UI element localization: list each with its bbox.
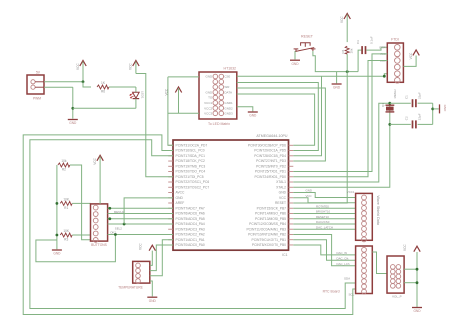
svg-text:OK2: OK2	[110, 230, 116, 234]
svg-text:PCINT30/OC2B/ICP_PD6: PCINT30/OC2B/ICP_PD6	[248, 144, 286, 148]
svg-text:PCINT1/ADC1_PA1: PCINT1/ADC1_PA1	[176, 238, 205, 242]
svg-text:VCC: VCC	[129, 63, 133, 70]
svg-text:PWM: PWM	[33, 96, 41, 100]
svg-text:PCINT29/OC1A_PD5: PCINT29/OC1A_PD5	[254, 149, 286, 153]
svg-text:SCL: SCL	[349, 293, 355, 297]
svg-text:WR: WR	[224, 85, 230, 89]
svg-text:PCINT11/OC0A/AIN1_PB3: PCINT11/OC0A/AIN1_PB3	[246, 227, 286, 231]
svg-text:DAC_LATCH: DAC_LATCH	[316, 225, 333, 229]
svg-text:RESET: RESET	[275, 201, 286, 205]
svg-text:10K: 10K	[63, 229, 70, 233]
svg-text:Wave Shield Data: Wave Shield Data	[376, 196, 380, 226]
svg-text:IC1: IC1	[282, 253, 287, 257]
svg-text:DTR: DTR	[379, 46, 386, 50]
svg-text:SDA: SDA	[344, 277, 350, 281]
svg-text:16MHz: 16MHz	[393, 89, 397, 99]
svg-text:R6: R6	[101, 90, 105, 94]
svg-text:AVCC: AVCC	[176, 191, 186, 195]
svg-text:R4: R4	[341, 49, 345, 53]
svg-text:GND: GND	[279, 191, 287, 195]
svg-text:PCINT5/ADC5_PA5: PCINT5/ADC5_PA5	[176, 217, 205, 221]
svg-text:PCINT7/ADC7_PA7: PCINT7/ADC7_PA7	[176, 206, 205, 210]
svg-text:MENU2: MENU2	[114, 210, 125, 214]
svg-text:XTAL2: XTAL2	[276, 185, 286, 189]
svg-text:PCINT2/ADC2_PA2: PCINT2/ADC2_PA2	[176, 233, 205, 237]
svg-text:VCC: VCC	[279, 196, 287, 200]
svg-text:PCINT22/TOSC1_PC6: PCINT22/TOSC1_PC6	[176, 180, 210, 184]
svg-text:VCC1: VCC1	[204, 101, 212, 105]
svg-text:PCINT31/OC2A_PD7: PCINT31/OC2A_PD7	[176, 144, 208, 148]
svg-text:VCC: VCC	[93, 157, 97, 164]
svg-text:GND2: GND2	[224, 106, 233, 110]
svg-text:GND: GND	[53, 252, 61, 256]
svg-text:VCC: VCC	[403, 244, 407, 251]
svg-text:RTC Board: RTC Board	[323, 290, 340, 294]
svg-text:VCC1: VCC1	[347, 190, 355, 194]
svg-text:GND: GND	[149, 299, 157, 303]
svg-text:AREF: AREF	[176, 201, 185, 205]
svg-text:GND1: GND1	[224, 101, 233, 105]
svg-text:DAC_W: DAC_W	[337, 251, 348, 255]
svg-text:PCINT25/TXD1_PD1: PCINT25/TXD1_PD1	[255, 170, 286, 174]
svg-text:BRIGHT10: BRIGHT10	[316, 210, 331, 214]
svg-text:C2: C2	[405, 116, 409, 120]
svg-text:10k: 10k	[350, 48, 354, 53]
svg-text:RESET: RESET	[301, 34, 314, 38]
svg-text:10K: 10K	[63, 197, 70, 201]
svg-text:TO: TO	[208, 96, 213, 100]
svg-text:PCINT27/INT1_PD3: PCINT27/INT1_PD3	[256, 159, 286, 163]
svg-text:PCINT24/RXD1_PD0: PCINT24/RXD1_PD0	[254, 175, 286, 179]
svg-text:ATMEGA644-10PU: ATMEGA644-10PU	[256, 134, 287, 138]
svg-text:HT1632: HT1632	[224, 67, 237, 71]
svg-text:PCINT0/ADC0_PA0: PCINT0/ADC0_PA0	[176, 243, 205, 247]
svg-text:VCC: VCC	[306, 194, 312, 198]
svg-text:R2: R2	[62, 168, 66, 172]
svg-text:GND: GND	[333, 86, 341, 90]
svg-text:22pF: 22pF	[418, 92, 422, 99]
svg-text:To LED Matrix: To LED Matrix	[208, 122, 230, 126]
svg-text:PCINT12/OC0B/SS_PB4: PCINT12/OC0B/SS_PB4	[249, 222, 286, 226]
svg-text:VCC: VCC	[139, 243, 143, 250]
svg-text:RESET10: RESET10	[316, 215, 329, 219]
svg-text:PCINT10/INT2/AIN0_PB2: PCINT10/INT2/AIN0_PB2	[248, 233, 286, 237]
svg-text:VCC: VCC	[76, 63, 80, 70]
svg-text:GND: GND	[206, 75, 214, 79]
svg-text:PCINT16/SCL_PC0: PCINT16/SCL_PC0	[176, 149, 205, 153]
svg-text:GND3: GND3	[224, 112, 233, 116]
svg-text:GND: GND	[291, 62, 299, 66]
svg-text:XTAL1: XTAL1	[276, 180, 286, 184]
svg-text:VCC: VCC	[165, 88, 169, 95]
svg-text:0.1uF: 0.1uF	[370, 36, 374, 44]
svg-text:C1: C1	[405, 95, 409, 99]
svg-text:VCC3: VCC3	[204, 112, 212, 116]
svg-text:VCC: VCC	[340, 16, 344, 23]
svg-text:PCINT14/MISO_PB6: PCINT14/MISO_PB6	[255, 212, 286, 216]
svg-text:FTDI: FTDI	[391, 38, 399, 42]
svg-text:PCINT4/ADC4_PA4: PCINT4/ADC4_PA4	[176, 222, 205, 226]
svg-text:PCINT17/SDA_PC1: PCINT17/SDA_PC1	[176, 154, 206, 158]
svg-text:VCC2: VCC2	[204, 106, 212, 110]
svg-text:GND: GND	[249, 114, 257, 118]
svg-text:DAC_Clk: DAC_Clk	[337, 256, 349, 260]
svg-text:PCINT23/TOSC2_PC7: PCINT23/TOSC2_PC7	[176, 185, 210, 189]
svg-text:DAC_LCh: DAC_LCh	[337, 262, 350, 266]
svg-text:GND: GND	[413, 309, 421, 313]
svg-text:VOL_P: VOL_P	[392, 295, 402, 299]
svg-text:ROTATE0: ROTATE0	[316, 204, 329, 208]
svg-text:PCINT13/MOSI_PB5: PCINT13/MOSI_PB5	[255, 217, 286, 221]
svg-text:PCINT19/TMS_PC3: PCINT19/TMS_PC3	[176, 164, 206, 168]
svg-text:GND: GND	[306, 189, 312, 193]
svg-text:10k: 10k	[61, 159, 67, 163]
svg-text:PCINT15/SCK_PB7: PCINT15/SCK_PB7	[257, 206, 286, 210]
svg-text:PCINT18/TCK_PC2: PCINT18/TCK_PC2	[176, 159, 205, 163]
svg-text:GND: GND	[206, 90, 214, 94]
svg-text:Q1: Q1	[381, 103, 385, 107]
svg-text:PCINT26/INT0_PD2: PCINT26/INT0_PD2	[256, 164, 286, 168]
svg-text:GND: GND	[69, 121, 77, 125]
svg-text:PCINT20/TDO_PC4: PCINT20/TDO_PC4	[176, 170, 206, 174]
svg-text:DATA: DATA	[224, 90, 232, 94]
svg-text:GND: GND	[176, 196, 184, 200]
svg-text:PCINT3/ADC3_PA3: PCINT3/ADC3_PA3	[176, 227, 205, 231]
svg-text:R3: R3	[64, 238, 68, 242]
svg-text:22pF: 22pF	[418, 113, 422, 120]
svg-text:PCINT9/CLKO/T1_PB1: PCINT9/CLKO/T1_PB1	[252, 238, 287, 242]
svg-text:GND: GND	[443, 105, 447, 113]
svg-text:R1: R1	[64, 206, 68, 210]
svg-text:LED1: LED1	[141, 91, 145, 99]
svg-text:PCINT28/OC1B_PD4: PCINT28/OC1B_PD4	[254, 154, 286, 158]
svg-text:PCINT6/ADC6_PA6: PCINT6/ADC6_PA6	[176, 212, 205, 216]
svg-text:PCINT21/TDI_PC5: PCINT21/TDI_PC5	[176, 175, 204, 179]
svg-text:DAC2CS0: DAC2CS0	[316, 220, 330, 224]
svg-text:VCC: VCC	[409, 52, 413, 59]
svg-text:CS0: CS0	[224, 75, 230, 79]
svg-text:PCINT8/XCK0/T0_PB0: PCINT8/XCK0/T0_PB0	[252, 243, 286, 247]
svg-text:BUTTONS: BUTTONS	[91, 243, 107, 247]
svg-text:C3: C3	[356, 40, 360, 44]
svg-text:TEMPERATURE: TEMPERATURE	[118, 285, 143, 289]
